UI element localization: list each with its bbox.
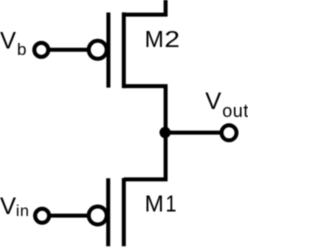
svg-text:1: 1 bbox=[166, 191, 177, 217]
svg-text:M: M bbox=[145, 26, 164, 52]
wire M2 drain down to output node bbox=[124, 86, 166, 133]
terminal Vout (open circle) bbox=[222, 125, 237, 140]
svg-text:out: out bbox=[222, 101, 248, 121]
svg-text:2: 2 bbox=[164, 26, 180, 52]
svg-text:in: in bbox=[16, 203, 30, 220]
terminal Vin (open circle) bbox=[35, 209, 49, 223]
transistor M2 (PMOS: gate bubble, gate bar, channel bar) bbox=[89, 12, 124, 88]
node Vin label bbox=[0, 193, 30, 220]
wire Vin terminal to M1 gate bubble bbox=[42, 214, 97, 218]
wire node to Vout terminal bbox=[166, 131, 229, 135]
node Vb label bbox=[0, 28, 26, 60]
transistor M1 (gate bubble, gate bar, channel bar) bbox=[89, 178, 124, 246]
svg-text:V: V bbox=[205, 88, 221, 115]
wire M2 source to top rail bbox=[124, 0, 166, 15]
node Vout label bbox=[205, 88, 249, 121]
terminal Vb (open circle) bbox=[34, 43, 48, 57]
svg-text:V: V bbox=[0, 28, 16, 55]
svg-text:b: b bbox=[17, 40, 26, 59]
junction node (solder dot) bbox=[160, 127, 171, 138]
wire output node down to M1 drain bbox=[124, 133, 166, 180]
svg-text:V: V bbox=[0, 193, 16, 220]
svg-text:M: M bbox=[145, 191, 164, 217]
wire Vb terminal to M2 gate bubble bbox=[41, 48, 97, 52]
